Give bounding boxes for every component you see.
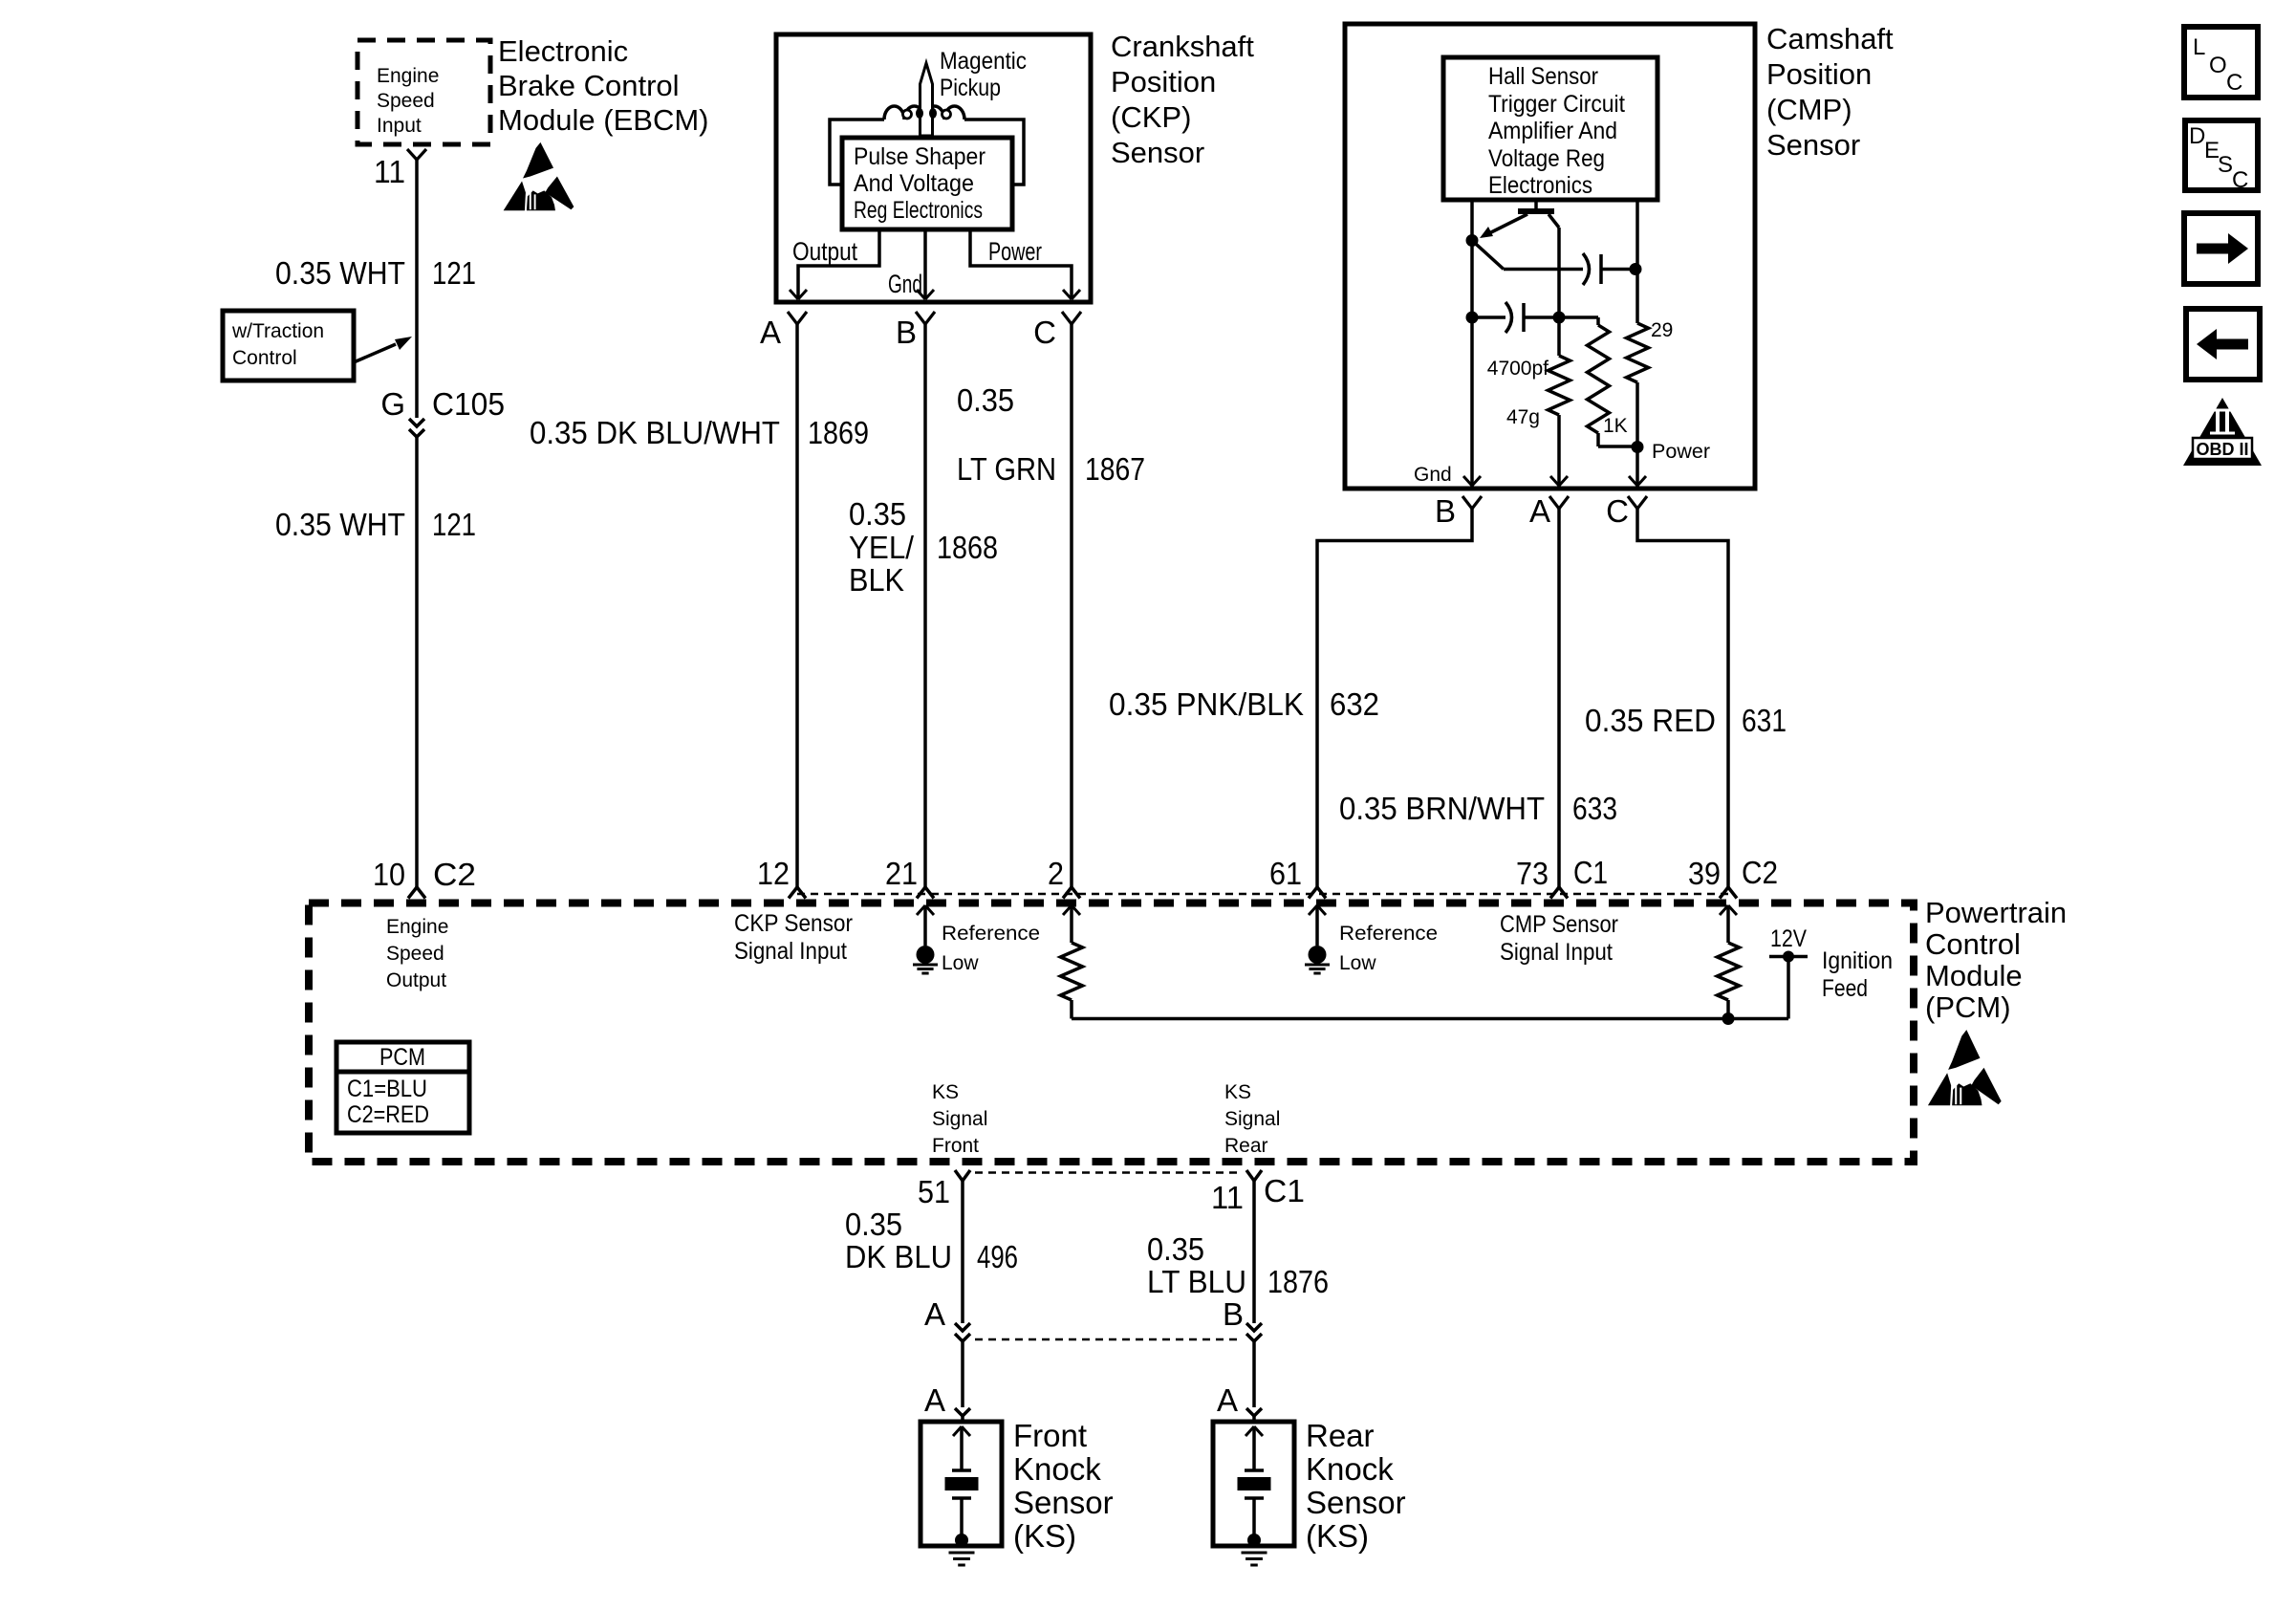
- svg-text:(KS): (KS): [1306, 1518, 1369, 1554]
- svg-text:Output: Output: [386, 969, 446, 991]
- svg-text:Electronics: Electronics: [1488, 172, 1592, 199]
- svg-text:PCM: PCM: [379, 1044, 425, 1071]
- svg-text:0.35 WHT: 0.35 WHT: [275, 507, 405, 542]
- svg-text:B: B: [1435, 493, 1456, 529]
- svg-text:C2: C2: [1742, 855, 1778, 890]
- svg-text:(CMP): (CMP): [1766, 93, 1852, 126]
- svg-text:C105: C105: [432, 386, 505, 422]
- svg-text:Speed: Speed: [386, 943, 444, 965]
- svg-text:1869: 1869: [808, 415, 869, 450]
- svg-text:1867: 1867: [1085, 451, 1145, 487]
- svg-text:B: B: [896, 315, 917, 350]
- svg-text:10: 10: [373, 857, 405, 892]
- svg-text:KS: KS: [1224, 1081, 1251, 1103]
- svg-text:Module: Module: [1925, 959, 2023, 992]
- svg-text:29: 29: [1651, 319, 1673, 341]
- svg-text:Ignition: Ignition: [1822, 947, 1893, 974]
- svg-text:Control: Control: [232, 347, 297, 369]
- svg-text:A: A: [924, 1382, 945, 1418]
- svg-text:Electronic: Electronic: [498, 34, 628, 68]
- svg-text:Reg Electronics: Reg Electronics: [854, 197, 983, 224]
- svg-text:A: A: [1217, 1382, 1238, 1418]
- svg-text:Input: Input: [377, 115, 422, 137]
- svg-text:Camshaft: Camshaft: [1766, 22, 1894, 55]
- svg-text:Voltage Reg: Voltage Reg: [1488, 145, 1605, 172]
- svg-text:Sensor: Sensor: [1766, 128, 1860, 162]
- svg-text:39: 39: [1688, 856, 1721, 891]
- svg-text:Reference: Reference: [942, 923, 1040, 945]
- svg-text:C2=RED: C2=RED: [347, 1101, 429, 1128]
- svg-text:Magentic: Magentic: [940, 48, 1027, 75]
- svg-text:0.35 DK BLU/WHT: 0.35 DK BLU/WHT: [530, 415, 780, 450]
- svg-text:Control: Control: [1925, 927, 2021, 961]
- svg-text:0.35 PNK/BLK: 0.35 PNK/BLK: [1109, 686, 1304, 722]
- svg-text:Gnd: Gnd: [888, 270, 922, 298]
- svg-text:Trigger Circuit: Trigger Circuit: [1488, 91, 1625, 118]
- svg-text:OBD II: OBD II: [2196, 440, 2248, 459]
- svg-text:DK BLU: DK BLU: [845, 1239, 952, 1274]
- svg-text:Pickup: Pickup: [940, 75, 1001, 101]
- svg-text:Signal Input: Signal Input: [734, 938, 847, 965]
- svg-text:1K: 1K: [1603, 415, 1628, 437]
- svg-text:Hall Sensor: Hall Sensor: [1488, 63, 1598, 90]
- svg-text:(PCM): (PCM): [1925, 990, 2011, 1024]
- svg-text:Feed: Feed: [1822, 975, 1868, 1002]
- svg-text:LT GRN: LT GRN: [957, 451, 1056, 487]
- svg-text:Power: Power: [988, 237, 1042, 266]
- svg-text:D: D: [2189, 123, 2205, 149]
- svg-text:Gnd: Gnd: [1414, 464, 1452, 486]
- svg-text:Sensor: Sensor: [1111, 136, 1204, 169]
- svg-text:Front: Front: [1013, 1418, 1087, 1453]
- svg-text:CKP Sensor: CKP Sensor: [734, 910, 853, 937]
- svg-text:And Voltage: And Voltage: [854, 170, 974, 197]
- svg-text:631: 631: [1742, 703, 1787, 738]
- svg-text:C1: C1: [1573, 855, 1608, 890]
- svg-text:C1=BLU: C1=BLU: [347, 1076, 427, 1102]
- svg-text:Brake Control: Brake Control: [498, 69, 680, 102]
- svg-text:Powertrain: Powertrain: [1925, 896, 2067, 929]
- svg-text:S: S: [2218, 152, 2233, 178]
- svg-text:73: 73: [1516, 856, 1549, 891]
- svg-text:YEL/: YEL/: [849, 530, 915, 565]
- svg-text:21: 21: [885, 856, 918, 891]
- svg-text:Pulse Shaper: Pulse Shaper: [854, 143, 986, 170]
- svg-text:Sensor: Sensor: [1306, 1485, 1406, 1520]
- svg-text:Rear: Rear: [1224, 1135, 1268, 1157]
- svg-text:C: C: [1606, 493, 1629, 529]
- svg-text:Front: Front: [932, 1135, 979, 1157]
- svg-text:(KS): (KS): [1013, 1518, 1076, 1554]
- svg-text:Position: Position: [1111, 65, 1216, 98]
- svg-text:11: 11: [374, 154, 405, 189]
- svg-text:L: L: [2193, 34, 2205, 60]
- svg-text:47g: 47g: [1506, 406, 1540, 428]
- svg-text:C2: C2: [433, 857, 476, 892]
- svg-text:(CKP): (CKP): [1111, 100, 1191, 134]
- svg-text:0.35 WHT: 0.35 WHT: [275, 255, 405, 291]
- svg-text:61: 61: [1269, 856, 1302, 891]
- svg-text:2: 2: [1048, 856, 1064, 891]
- svg-text:Signal: Signal: [1224, 1108, 1280, 1130]
- svg-text:C1: C1: [1264, 1173, 1305, 1208]
- svg-text:C: C: [2226, 70, 2242, 96]
- svg-text:Crankshaft: Crankshaft: [1111, 30, 1254, 63]
- svg-text:G: G: [380, 386, 405, 422]
- svg-text:1868: 1868: [937, 530, 998, 565]
- svg-text:0.35: 0.35: [957, 382, 1014, 418]
- svg-text:w/Traction: w/Traction: [231, 320, 324, 342]
- svg-text:Engine: Engine: [386, 916, 448, 938]
- svg-text:Sensor: Sensor: [1013, 1485, 1114, 1520]
- svg-text:Power: Power: [1652, 441, 1710, 463]
- svg-text:Module (EBCM): Module (EBCM): [498, 103, 709, 137]
- svg-text:Knock: Knock: [1013, 1451, 1101, 1487]
- svg-text:0.35: 0.35: [849, 496, 906, 532]
- svg-text:11: 11: [1211, 1180, 1244, 1215]
- svg-text:Speed: Speed: [377, 90, 435, 112]
- svg-text:0.35 BRN/WHT: 0.35 BRN/WHT: [1339, 791, 1545, 826]
- svg-text:Signal: Signal: [932, 1108, 987, 1130]
- svg-text:632: 632: [1330, 686, 1379, 722]
- svg-text:KS: KS: [932, 1081, 959, 1103]
- svg-text:1876: 1876: [1267, 1264, 1329, 1299]
- svg-text:Rear: Rear: [1306, 1418, 1375, 1453]
- svg-text:4700pf: 4700pf: [1487, 358, 1549, 380]
- svg-text:LT BLU: LT BLU: [1147, 1264, 1246, 1299]
- svg-text:496: 496: [977, 1239, 1018, 1274]
- svg-text:0.35: 0.35: [1147, 1231, 1204, 1267]
- svg-text:51: 51: [918, 1174, 950, 1209]
- svg-text:0.35: 0.35: [845, 1207, 902, 1242]
- svg-text:Reference: Reference: [1339, 923, 1438, 945]
- svg-text:Amplifier And: Amplifier And: [1488, 118, 1617, 144]
- svg-text:Knock: Knock: [1306, 1451, 1394, 1487]
- svg-text:CMP Sensor: CMP Sensor: [1500, 911, 1618, 938]
- svg-text:B: B: [1223, 1296, 1244, 1332]
- svg-text:C: C: [1033, 315, 1056, 350]
- svg-text:C: C: [2232, 167, 2248, 193]
- svg-text:12: 12: [757, 856, 790, 891]
- svg-text:121: 121: [432, 255, 476, 291]
- svg-text:A: A: [1529, 493, 1550, 529]
- svg-text:BLK: BLK: [849, 562, 904, 598]
- svg-text:Low: Low: [942, 952, 979, 974]
- svg-text:12V: 12V: [1770, 925, 1807, 952]
- svg-text:Position: Position: [1766, 57, 1872, 91]
- svg-text:Low: Low: [1339, 952, 1376, 974]
- svg-text:121: 121: [432, 507, 476, 542]
- svg-text:Engine: Engine: [377, 65, 439, 87]
- svg-text:0.35 RED: 0.35 RED: [1585, 703, 1716, 738]
- svg-text:A: A: [924, 1296, 945, 1332]
- svg-text:Signal Input: Signal Input: [1500, 939, 1613, 966]
- svg-text:A: A: [760, 315, 781, 350]
- svg-text:Output: Output: [792, 237, 857, 266]
- svg-text:633: 633: [1572, 791, 1617, 826]
- svg-text:O: O: [2209, 53, 2227, 78]
